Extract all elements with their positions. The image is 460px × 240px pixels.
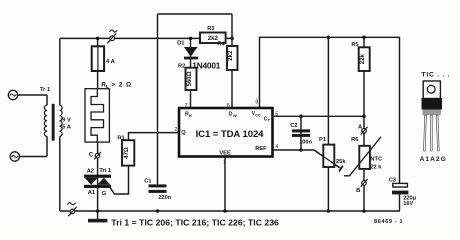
svg-text:C2: C2 — [290, 123, 297, 129]
svg-text:R1: R1 — [117, 135, 124, 141]
svg-text:NTC: NTC — [370, 157, 382, 163]
svg-text:100n: 100n — [299, 140, 312, 146]
svg-text:9 V: 9 V — [62, 118, 71, 124]
svg-text:REF: REF — [255, 146, 267, 152]
svg-text:4: 4 — [275, 144, 278, 150]
svg-text:A2: A2 — [87, 168, 94, 174]
svg-text:16V: 16V — [403, 201, 413, 207]
svg-text:6: 6 — [227, 103, 230, 109]
svg-text:2k2: 2k2 — [208, 36, 219, 42]
svg-text:A1: A1 — [88, 190, 95, 196]
svg-text:8: 8 — [255, 100, 258, 106]
svg-text:Tri 1 = TIC 206; TIC 216; TIC: Tri 1 = TIC 206; TIC 216; TIC 226; TIC 2… — [111, 218, 279, 228]
svg-text:R4: R4 — [217, 42, 225, 48]
svg-text:25k: 25k — [336, 159, 346, 165]
svg-text:C: C — [89, 152, 94, 159]
svg-text:47Ω: 47Ω — [124, 147, 130, 159]
svg-text:W: W — [233, 114, 237, 118]
svg-text:Tr 1: Tr 1 — [40, 87, 50, 93]
svg-text:D1: D1 — [177, 41, 184, 47]
svg-text:Tri 1: Tri 1 — [99, 168, 111, 174]
svg-text:R2: R2 — [178, 64, 185, 70]
svg-text:1N4001: 1N4001 — [192, 61, 220, 71]
svg-text:P1: P1 — [319, 137, 326, 143]
svg-text:K: K — [189, 114, 192, 118]
svg-text:220n: 220n — [158, 195, 171, 201]
svg-text:IC1 = TDA 1024: IC1 = TDA 1024 — [196, 129, 265, 140]
svg-text:G: G — [102, 191, 107, 197]
svg-text:1: 1 — [223, 159, 226, 165]
svg-text:560Ω: 560Ω — [187, 71, 193, 86]
svg-text:R3: R3 — [207, 26, 214, 32]
svg-text:A1A2G: A1A2G — [420, 156, 447, 163]
svg-text:2: 2 — [174, 127, 177, 133]
svg-text:7: 7 — [185, 103, 188, 109]
svg-text:22 k: 22 k — [370, 165, 382, 171]
svg-text:TIC . . .: TIC . . . — [422, 72, 451, 79]
svg-text:22k: 22k — [360, 54, 366, 65]
svg-text:86469 - 1: 86469 - 1 — [374, 219, 403, 225]
svg-text:VEE: VEE — [219, 150, 231, 156]
svg-text:B: B — [356, 188, 360, 194]
svg-text:R6: R6 — [351, 137, 358, 143]
svg-text:5: 5 — [275, 111, 278, 117]
svg-text:2k2: 2k2 — [228, 50, 234, 61]
svg-text:4 A: 4 A — [106, 59, 116, 65]
svg-text:C1: C1 — [144, 179, 151, 185]
svg-text:C3: C3 — [389, 178, 396, 184]
svg-text:5 A: 5 A — [62, 125, 71, 131]
svg-text:R5: R5 — [351, 42, 358, 48]
svg-text:CC: CC — [255, 113, 261, 117]
svg-text:Q: Q — [181, 130, 186, 136]
